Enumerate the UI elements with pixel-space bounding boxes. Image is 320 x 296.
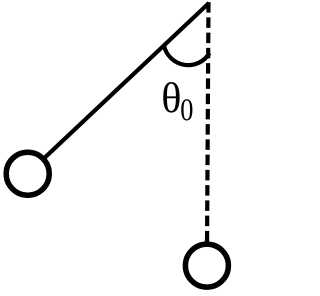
equilibrium line (dashed vertical) — [207, 2, 209, 265]
dash stub joining bob — [205, 240, 209, 244]
pendulum bob (equilibrium) — [185, 244, 228, 287]
pendulum bob (displaced) — [6, 152, 49, 195]
label theta — [163, 82, 179, 113]
angle arc — [164, 46, 210, 66]
label subscript 0 — [181, 99, 192, 120]
pendulum rod (displaced position) — [28, 3, 209, 174]
